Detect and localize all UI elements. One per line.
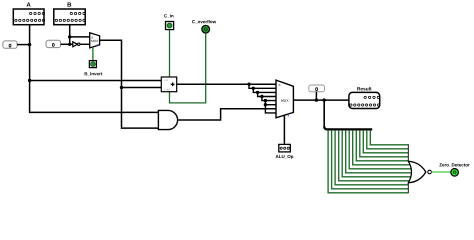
wire A to adder — [30, 80, 162, 82]
junction B-not — [68, 43, 71, 46]
splitter legs (13 bits) — [328, 130, 411, 193]
junction B-mux — [68, 35, 71, 38]
wire adder output to mux input 0 — [177, 83, 276, 85]
wire mux select to ALU_Op — [283, 115, 285, 144]
output pin Zero_Detector — [439, 163, 469, 176]
probe Result value 0 — [309, 85, 325, 100]
input pin ALU_Op — [276, 144, 294, 159]
input pin C_in — [164, 14, 173, 29]
probe B value 0 — [46, 40, 70, 47]
input pin B — [54, 2, 85, 24]
junction muxout-adder — [120, 86, 123, 89]
mux U1 (B / not-B select) — [90, 33, 100, 48]
wire A vertical — [30, 25, 159, 113]
junction stair 1 — [252, 87, 255, 90]
junction stair 0 — [247, 83, 250, 86]
wire result bus — [293, 99, 349, 101]
wire B vertical — [69, 25, 71, 45]
wire c_out green — [170, 33, 206, 103]
wire B to mux input 0 — [70, 36, 90, 38]
staircase fanout wires — [249, 84, 276, 113]
splitter spine — [324, 100, 372, 129]
input pin B_Invert — [85, 61, 103, 76]
wire mux select green — [92, 47, 94, 61]
NOR gate zero detect — [408, 144, 431, 193]
junction probe-result — [315, 98, 318, 101]
output pin Result — [349, 87, 380, 109]
wire mux U1 output — [100, 40, 159, 128]
output pin C_overflow — [192, 20, 216, 33]
wire zero out green (logic 1, bright) — [431, 171, 450, 173]
wire AND output — [178, 109, 276, 120]
adder U2 — [161, 77, 176, 92]
input pin A — [13, 2, 44, 24]
junction A-probe — [28, 43, 31, 46]
mux U4 (ALU result 8:1) — [276, 80, 293, 118]
probe A value 0 — [3, 41, 30, 48]
AND gate U3 — [158, 110, 177, 129]
junction splitter-result — [323, 98, 326, 101]
junction stair 4 — [264, 99, 267, 102]
junction stair 5 — [264, 103, 267, 106]
wire to adder input b — [122, 87, 162, 89]
junction stair 2 — [256, 91, 259, 94]
wire C_in green — [169, 30, 171, 77]
inverter NOT gate on B — [70, 42, 90, 47]
junction stair 3 — [260, 95, 263, 98]
junction A-adder — [28, 79, 31, 82]
